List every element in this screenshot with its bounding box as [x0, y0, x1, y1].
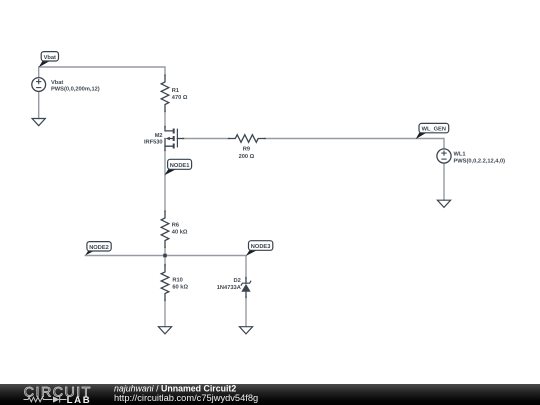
junction node dot	[163, 254, 167, 258]
resistor R10	[161, 265, 169, 301]
svg-text:Vbat: Vbat	[44, 54, 56, 61]
svg-text:200 Ω: 200 Ω	[239, 154, 255, 160]
svg-text:1N4733A: 1N4733A	[217, 285, 241, 291]
svg-text:IRF530: IRF530	[144, 140, 163, 146]
svg-text:R1: R1	[172, 88, 179, 94]
svg-text:Vbat: Vbat	[51, 79, 63, 86]
svg-text:NODE1: NODE1	[170, 163, 190, 169]
wire R6 bottom to bus	[164, 247, 166, 266]
svg-text:60 kΩ: 60 kΩ	[172, 284, 188, 291]
svg-text:M2: M2	[155, 133, 163, 139]
svg-text:NODE2: NODE2	[89, 245, 109, 251]
wire R1 bottom to M2 drain	[164, 111, 166, 127]
node label NODE3	[246, 241, 273, 256]
ground (D2)	[239, 327, 252, 334]
resistor R9	[229, 135, 266, 143]
wire WL1 bottom to ground	[443, 163, 445, 200]
wire top bus Vbat to R1	[39, 67, 165, 76]
svg-text:WL1: WL1	[454, 151, 466, 157]
wire M2 source to NODE1 / R6	[164, 150, 166, 212]
CircuitLab logo resistor-diode glyph	[24, 396, 67, 402]
ground (WL1)	[437, 200, 450, 207]
resistor R6	[161, 211, 169, 248]
wire M2 gate to R9	[183, 138, 229, 140]
diode D2 (zener 1N4733A)	[241, 278, 251, 298]
node label NODE1	[164, 159, 191, 175]
wire R10 bottom to ground	[164, 300, 166, 327]
svg-text:NODE3: NODE3	[251, 244, 271, 250]
svg-text:R10: R10	[172, 277, 182, 283]
wire R9 to WL1 source	[265, 139, 445, 150]
svg-text:40 kΩ: 40 kΩ	[172, 229, 188, 236]
ground (R10)	[158, 327, 171, 334]
svg-text:PWS(0,0,2.2,12,4,0): PWS(0,0,2.2,12,4,0)	[454, 157, 506, 164]
node label Vbat	[39, 52, 59, 68]
transistor M2 (NMOS IRF530)	[165, 127, 184, 151]
wire Vbat source top lead	[38, 67, 40, 78]
resistor R1	[161, 75, 169, 112]
svg-text:http://circuitlab.com/c75jwydv: http://circuitlab.com/c75jwydv54f8g	[114, 393, 258, 403]
svg-text:PWS(0,0,200m,12): PWS(0,0,200m,12)	[51, 85, 100, 92]
voltage source Vbat	[32, 78, 46, 92]
ground (Vbat)	[32, 119, 45, 126]
node label WL_GEN	[416, 123, 449, 139]
svg-text:R6: R6	[172, 223, 179, 229]
svg-text:R9: R9	[243, 147, 250, 153]
node label NODE2	[85, 242, 111, 256]
svg-text:D2: D2	[234, 278, 241, 284]
wire D2 bottom to ground	[245, 297, 247, 327]
wire horizontal bus NODE2 to NODE3	[85, 256, 246, 279]
svg-text:WL_GEN: WL_GEN	[422, 127, 446, 133]
svg-text:LAB: LAB	[67, 395, 92, 405]
voltage source WL1	[437, 149, 451, 163]
wire Vbat source bottom to ground	[38, 91, 40, 118]
footer bar	[0, 384, 540, 405]
svg-text:470 Ω: 470 Ω	[172, 95, 188, 101]
